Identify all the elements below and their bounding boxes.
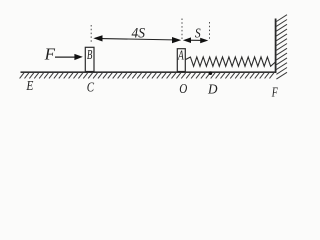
svg-text:O: O <box>179 81 187 96</box>
svg-text:D: D <box>207 82 218 97</box>
svg-text:A: A <box>177 47 184 62</box>
svg-text:S: S <box>195 27 201 42</box>
svg-text:B: B <box>87 48 93 63</box>
svg-text:F: F <box>271 85 278 100</box>
svg-text:F: F <box>44 45 56 64</box>
svg-text:E: E <box>26 78 34 93</box>
svg-text:C: C <box>87 79 95 94</box>
svg-text:4S: 4S <box>132 26 146 42</box>
